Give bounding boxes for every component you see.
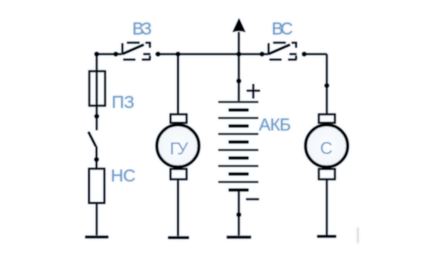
svg-text:НС: НС (111, 165, 136, 185)
svg-text:ВС: ВС (272, 19, 293, 39)
svg-text:ВЗ: ВЗ (132, 18, 152, 38)
svg-text:АКБ: АКБ (259, 114, 291, 134)
svg-text:ПЗ: ПЗ (112, 92, 135, 112)
svg-text:ГУ: ГУ (170, 139, 189, 159)
svg-text:С: С (320, 138, 333, 158)
